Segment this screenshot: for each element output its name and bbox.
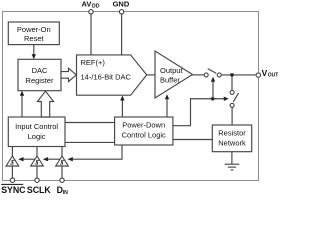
outer chip boundary [3, 12, 259, 181]
wire power-down to output buffer (arrow) [165, 94, 169, 117]
wire power-down to Resistor Network [173, 139, 212, 141]
svg-text:OUT: OUT [268, 73, 279, 79]
svg-text:DAC: DAC [32, 66, 48, 75]
label SYNC (with overline) [1, 184, 26, 194]
op-amp Output Buffer [155, 51, 193, 98]
block Resistor Network [212, 125, 251, 152]
svg-text:V: V [262, 68, 268, 78]
node junction on control wire [211, 97, 215, 101]
block Power-On Reset [8, 22, 59, 45]
input buffer SYNC [6, 147, 19, 183]
wire buffer chain arrow DIN to SCLK [43, 157, 60, 161]
svg-text:GND: GND [113, 0, 130, 8]
svg-text:Control Logic: Control Logic [122, 130, 166, 139]
node junction at output [230, 73, 234, 77]
wire Power-On Reset to DAC Register (arrow) [32, 45, 36, 60]
wire bus Input Control Logic to Power-Down Control Logic [65, 122, 115, 124]
bus arrow Input Control Logic to DAC Register [37, 91, 53, 117]
wire switch 2 to Resistor Network [231, 107, 233, 125]
wire control branch up to switch 1 (arrow) [211, 77, 215, 99]
svg-text:Power-Down: Power-Down [122, 120, 165, 129]
bus arrow DAC Register to DAC block [61, 68, 76, 81]
wire bus 2 Input Control Logic to Power-Down Control Logic [65, 141, 115, 143]
svg-text:14-/16-Bit DAC: 14-/16-Bit DAC [81, 73, 132, 82]
pin VOUT terminal [256, 73, 260, 77]
switch S1 (output switch) [204, 69, 221, 77]
block DAC Register [18, 59, 61, 90]
block REF(+) 14-/16-Bit DAC [77, 55, 147, 95]
wire buffer output to switch 1 [193, 74, 205, 76]
svg-text:Reset: Reset [24, 34, 45, 43]
block Power-Down Control Logic [115, 117, 173, 145]
svg-text:Logic: Logic [28, 132, 46, 141]
svg-text:SYNC: SYNC [1, 185, 26, 195]
svg-text:Input Control: Input Control [15, 122, 58, 131]
svg-text:REF(+): REF(+) [81, 58, 106, 67]
switch S2 (to resistor network) [230, 90, 238, 107]
wire power-down to DAC block (arrow) [120, 96, 124, 118]
svg-text:Register: Register [26, 76, 54, 85]
wire switch 1 to VOUT [221, 74, 256, 76]
svg-text:Output: Output [160, 66, 183, 75]
svg-text:Network: Network [218, 138, 246, 147]
block Input Control Logic [8, 117, 65, 147]
wire Input Control Logic to DAC Register (arrow) [20, 91, 24, 117]
svg-text:Power-On: Power-On [17, 25, 51, 34]
wire power-down bottom to input buffer chain (arrow) [68, 145, 123, 161]
ground [225, 152, 240, 170]
svg-text:SCLK: SCLK [27, 185, 51, 195]
svg-text:AV: AV [82, 0, 92, 8]
svg-text:Resistor: Resistor [218, 128, 246, 137]
wire buffer chain arrow SCLK to SYNC [18, 157, 35, 161]
svg-text:DD: DD [92, 3, 100, 9]
input buffer DIN [56, 147, 69, 183]
svg-text:IN: IN [63, 190, 68, 195]
input buffer SCLK [31, 147, 44, 183]
wire DAC block to Output Buffer [147, 74, 155, 76]
wire power-down control to switches [173, 97, 229, 126]
pin AVDD terminal [89, 10, 93, 55]
wire junction down to switch 2 [231, 77, 233, 91]
svg-text:Buffer: Buffer [160, 76, 180, 85]
pin GND terminal [119, 10, 123, 55]
